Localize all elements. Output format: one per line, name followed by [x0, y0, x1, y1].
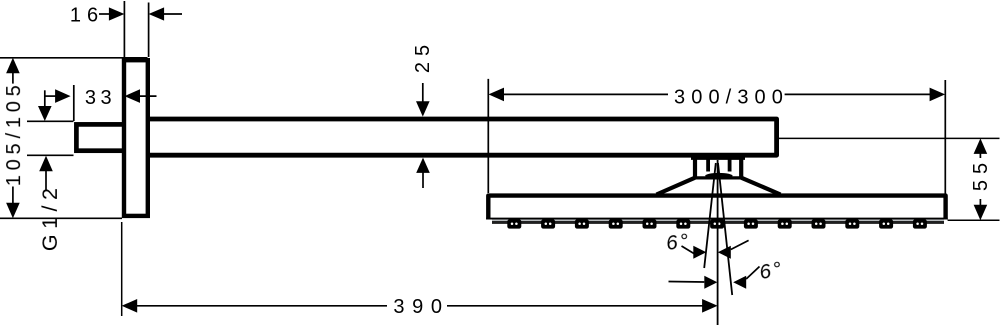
dim 55 stem top [979, 151, 981, 158]
spray disc body [488, 196, 945, 220]
dim 105/105 arrow up [6, 58, 20, 74]
svg-text:G1/2: G1/2 [38, 182, 62, 251]
dim 105/105 line bottom [12, 187, 14, 206]
angle2 tail left [669, 281, 705, 284]
dim 25 stem top [422, 83, 424, 104]
dim 105/105 line top [12, 71, 14, 84]
angle2 leader right [746, 267, 759, 280]
connector housing bottom [693, 176, 743, 179]
angle2 arrow right-pointing [704, 276, 717, 289]
pipe arrow down stem [44, 90, 46, 108]
wall plate [124, 60, 148, 216]
connector housing left side [693, 156, 697, 180]
dim 300/300 line right [785, 93, 933, 95]
svg-text:33: 33 [85, 87, 116, 109]
angle1 arrow right-pointing [693, 246, 706, 259]
dim 55 ref line bottom [948, 219, 1000, 221]
dim 16 line left [99, 13, 112, 15]
dim 105/105 ext top [0, 57, 148, 59]
dim 390 line left [135, 305, 387, 307]
angle1 tail right [731, 240, 749, 249]
left spray line [704, 163, 716, 268]
dim 390 arrow right-pointing [702, 299, 718, 313]
right spray line [718, 163, 732, 295]
dim 300/300 ext left [487, 79, 489, 193]
dim 55 arrow up [974, 138, 988, 154]
dim 16 ext left [123, 1, 125, 57]
dim 390 line right [447, 305, 705, 307]
svg-text:25: 25 [412, 39, 434, 73]
nozzles [507, 219, 927, 228]
svg-text:6°: 6° [665, 229, 693, 255]
ball [705, 173, 732, 179]
dim 300/300 line left [502, 93, 669, 95]
connector housing right side [739, 156, 743, 180]
shower arm [148, 119, 777, 155]
dim 390 ext left [121, 222, 123, 316]
supply pipe stub G1/2 [76, 124, 125, 150]
dim 390 arrow left-pointing [122, 299, 138, 313]
dim 16 ext right [148, 3, 150, 58]
pipe arrow down [38, 106, 52, 121]
angle1 leader left [682, 246, 696, 255]
dim 33 arrow left-pointing [125, 89, 141, 103]
nozzle dots [511, 223, 924, 226]
angle2 arrow left-pointing [733, 276, 746, 289]
svg-text:390: 390 [393, 296, 449, 318]
dim 300/300 arrow left-pointing [489, 88, 505, 102]
svg-text:105/105: 105/105 [3, 80, 25, 186]
dim 25 arrow up [416, 158, 430, 173]
dim 300/300 arrow right-pointing [930, 88, 946, 102]
ball housing right side [728, 158, 732, 172]
dim 25 arrow down [416, 101, 430, 116]
angle1 arrow left-pointing [718, 246, 731, 259]
svg-text:300/300: 300/300 [674, 86, 789, 108]
ball housing left side [706, 158, 710, 172]
dim 25 stem bottom [422, 171, 424, 188]
dim 16 arrow left-pointing [149, 7, 165, 20]
dim 105/105 ext bottom [0, 217, 122, 219]
pipe top ext line [27, 120, 74, 122]
dim 55 ref line top [779, 137, 1000, 139]
G1/2 leader [45, 170, 47, 191]
connector top band [691, 155, 745, 160]
spray disc bottom line [486, 218, 947, 220]
dim 105/105 arrow down [6, 203, 20, 219]
flange right diagonal [741, 178, 780, 195]
dim 33 tail left [45, 95, 58, 97]
dim 16 arrow right-pointing [109, 7, 125, 20]
spray centerline [717, 160, 719, 325]
flange left diagonal [657, 178, 696, 195]
dim 33 arrow right-pointing [55, 89, 71, 103]
dim 55 stem bottom [979, 199, 981, 207]
dim 16 tail right [162, 13, 182, 15]
G1/2 arrow up [39, 156, 53, 172]
dim 55 arrow down [974, 205, 988, 221]
dim 300/300 ext right [944, 80, 946, 194]
dim 33 ext line [73, 85, 75, 121]
nozzle gray band [492, 220, 944, 221]
pipe bottom ext line [27, 154, 74, 156]
dim 33 tail right [138, 95, 157, 97]
svg-text:16: 16 [70, 5, 104, 27]
svg-text:55: 55 [970, 157, 992, 191]
